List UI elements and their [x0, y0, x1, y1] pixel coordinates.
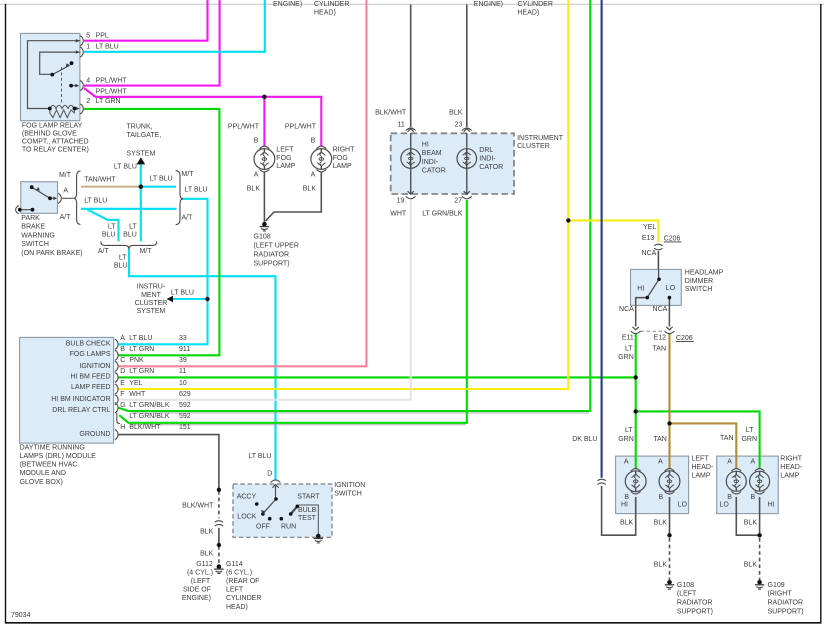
svg-text:79034: 79034	[11, 612, 31, 619]
svg-text:DRL RELAY CTRL: DRL RELAY CTRL	[52, 407, 110, 414]
svg-text:G114: G114	[226, 561, 243, 568]
svg-text:FOG: FOG	[333, 155, 348, 162]
svg-text:39: 39	[179, 357, 187, 364]
svg-text:LO: LO	[666, 285, 676, 292]
svg-text:LT BLU: LT BLU	[248, 453, 271, 460]
svg-text:TAN: TAN	[653, 345, 666, 352]
svg-text:SWITCH: SWITCH	[21, 241, 49, 248]
svg-text:E: E	[120, 380, 125, 387]
svg-text:(LEFT: (LEFT	[191, 578, 211, 585]
svg-text:INDI-: INDI-	[422, 159, 439, 166]
svg-text:629: 629	[179, 391, 191, 398]
svg-text:LAMP FEED: LAMP FEED	[71, 384, 111, 391]
svg-text:BLK: BLK	[620, 520, 634, 527]
svg-text:1: 1	[86, 43, 90, 50]
svg-text:LT GRN/BLK: LT GRN/BLK	[422, 210, 463, 217]
svg-text:11: 11	[179, 368, 186, 375]
svg-text:RADIATOR: RADIATOR	[254, 251, 290, 258]
svg-text:LT BLU: LT BLU	[150, 175, 173, 182]
svg-text:A/T: A/T	[182, 214, 194, 221]
svg-text:BLK: BLK	[744, 520, 758, 527]
svg-text:M/T: M/T	[182, 171, 195, 178]
svg-text:SUPPORT): SUPPORT)	[768, 609, 804, 616]
svg-text:PPL/WHT: PPL/WHT	[96, 89, 128, 96]
svg-text:(REAR OF: (REAR OF	[226, 578, 259, 585]
svg-text:PNK: PNK	[129, 357, 144, 364]
svg-text:IGNITION: IGNITION	[334, 482, 365, 489]
svg-text:LO: LO	[720, 501, 730, 508]
svg-text:23: 23	[455, 121, 463, 128]
svg-text:DK BLU: DK BLU	[572, 436, 597, 443]
svg-text:LT GRN/BLK: LT GRN/BLK	[129, 413, 170, 420]
svg-text:C: C	[120, 357, 125, 364]
svg-text:592: 592	[179, 402, 191, 409]
svg-text:BLK: BLK	[200, 550, 214, 557]
svg-text:33: 33	[179, 335, 187, 342]
svg-text:BLK/WHT: BLK/WHT	[182, 502, 214, 509]
svg-text:TAN: TAN	[653, 436, 666, 443]
svg-text:911: 911	[179, 346, 190, 353]
svg-text:11: 11	[398, 121, 405, 128]
svg-text:LT: LT	[746, 427, 754, 434]
svg-text:BRAKE: BRAKE	[21, 224, 45, 231]
svg-text:BULB: BULB	[298, 507, 317, 514]
svg-text:D: D	[267, 470, 272, 477]
svg-text:LT BLU: LT BLU	[129, 335, 152, 342]
svg-text:GRN: GRN	[618, 354, 634, 361]
svg-text:HEAD-: HEAD-	[780, 464, 802, 471]
svg-text:PPL/WHT: PPL/WHT	[285, 123, 317, 130]
svg-text:TO RELAY CENTER): TO RELAY CENTER)	[22, 147, 89, 154]
svg-text:HEAD): HEAD)	[518, 10, 540, 17]
svg-text:LEFT: LEFT	[226, 587, 244, 594]
svg-text:G: G	[120, 402, 125, 409]
svg-text:INSTRU-: INSTRU-	[137, 284, 166, 291]
svg-text:CLUSTER: CLUSTER	[135, 300, 168, 307]
svg-text:WARNING: WARNING	[21, 232, 55, 239]
svg-text:TAN/WHT: TAN/WHT	[84, 176, 116, 183]
svg-text:B: B	[254, 137, 259, 144]
svg-text:HI BM INDICATOR: HI BM INDICATOR	[51, 396, 110, 403]
svg-text:19: 19	[397, 197, 405, 204]
svg-text:CYLINDER: CYLINDER	[518, 1, 553, 8]
svg-text:HEADLAMP: HEADLAMP	[685, 270, 724, 277]
svg-text:BLK: BLK	[744, 561, 758, 568]
svg-text:HI: HI	[637, 285, 644, 292]
svg-text:A/T: A/T	[60, 214, 72, 221]
svg-text:GROUND: GROUND	[79, 431, 110, 438]
svg-text:RUN: RUN	[281, 523, 296, 530]
svg-text:RADIATOR: RADIATOR	[677, 600, 713, 607]
svg-text:2: 2	[86, 98, 90, 105]
svg-text:MENT: MENT	[141, 292, 162, 299]
svg-text:E12: E12	[654, 335, 667, 342]
svg-text:ENGINE): ENGINE)	[474, 1, 503, 8]
svg-text:(RIGHT: (RIGHT	[768, 591, 793, 598]
svg-text:E13: E13	[642, 235, 655, 242]
svg-text:CATOR: CATOR	[422, 167, 446, 174]
svg-text:LAMP: LAMP	[276, 163, 295, 170]
svg-text:M/T: M/T	[139, 248, 152, 255]
svg-text:A: A	[658, 459, 663, 466]
svg-text:5: 5	[86, 32, 90, 39]
svg-text:A: A	[120, 335, 125, 342]
svg-text:DRL: DRL	[479, 147, 493, 154]
svg-text:RIGHT: RIGHT	[333, 147, 356, 154]
svg-text:M/T: M/T	[59, 172, 72, 179]
svg-text:(LEFT: (LEFT	[677, 591, 697, 598]
svg-text:B: B	[659, 494, 664, 501]
svg-text:HI: HI	[768, 501, 775, 508]
svg-text:LT GRN/BLK: LT GRN/BLK	[129, 402, 170, 409]
svg-text:ENGINE): ENGINE)	[182, 595, 211, 602]
svg-text:10: 10	[179, 380, 187, 387]
svg-text:DAYTIME RUNNING: DAYTIME RUNNING	[20, 444, 85, 451]
svg-text:HI BM FEED: HI BM FEED	[70, 374, 110, 381]
svg-text:LT BLU: LT BLU	[171, 289, 194, 296]
svg-text:C206: C206	[676, 335, 693, 342]
svg-text:NCA: NCA	[619, 306, 634, 313]
svg-text:D: D	[120, 368, 125, 375]
svg-text:HEAD): HEAD)	[314, 10, 336, 17]
svg-text:PPL/WHT: PPL/WHT	[96, 77, 128, 84]
svg-text:592: 592	[179, 413, 191, 420]
svg-text:LEFT: LEFT	[276, 147, 294, 154]
svg-text:TRUNK,: TRUNK,	[127, 123, 153, 130]
svg-text:SWITCH: SWITCH	[685, 286, 713, 293]
svg-text:A: A	[254, 171, 259, 178]
svg-text:NCA: NCA	[653, 306, 668, 313]
svg-text:BLU: BLU	[123, 232, 137, 239]
svg-text:CATOR: CATOR	[479, 164, 503, 171]
svg-text:B: B	[311, 137, 316, 144]
svg-text:LAMPS (DRL) MODULE: LAMPS (DRL) MODULE	[20, 453, 97, 460]
svg-text:WHT: WHT	[390, 210, 407, 217]
svg-text:TAILGATE,: TAILGATE,	[127, 132, 162, 139]
svg-text:OFF: OFF	[256, 523, 270, 530]
svg-text:LT GRN: LT GRN	[129, 368, 154, 375]
svg-text:G108: G108	[254, 233, 271, 240]
svg-text:SUPPORT): SUPPORT)	[677, 609, 713, 616]
svg-text:LT GRN: LT GRN	[129, 346, 154, 353]
svg-text:PARK: PARK	[21, 215, 40, 222]
svg-text:LAMP: LAMP	[780, 473, 799, 480]
svg-text:LOCK: LOCK	[237, 514, 256, 521]
svg-text:CYLINDER: CYLINDER	[314, 1, 349, 8]
svg-text:TEST: TEST	[298, 515, 317, 522]
svg-text:CYLINDER: CYLINDER	[226, 595, 261, 602]
svg-text:LT: LT	[625, 345, 633, 352]
svg-text:HI: HI	[621, 501, 628, 508]
svg-text:B: B	[624, 494, 629, 501]
svg-text:SIDE OF: SIDE OF	[183, 587, 211, 594]
svg-text:GRN: GRN	[618, 436, 634, 443]
svg-text:LT BLU: LT BLU	[96, 43, 119, 50]
svg-text:FOG LAMPS: FOG LAMPS	[70, 351, 111, 358]
svg-text:DIMMER: DIMMER	[685, 278, 713, 285]
svg-text:G109: G109	[768, 582, 785, 589]
svg-text:SUPPORT): SUPPORT)	[254, 260, 290, 267]
svg-text:C206: C206	[664, 235, 681, 242]
svg-text:LT BLU: LT BLU	[114, 164, 137, 171]
svg-text:PPL/WHT: PPL/WHT	[228, 123, 260, 130]
svg-text:TAN: TAN	[720, 435, 733, 442]
svg-text:SYSTEM: SYSTEM	[137, 308, 166, 315]
svg-text:FOG LAMP RELAY: FOG LAMP RELAY	[22, 123, 83, 130]
svg-text:H: H	[120, 424, 125, 431]
svg-text:LAMP: LAMP	[692, 473, 711, 480]
svg-text:START: START	[297, 494, 320, 501]
svg-text:RIGHT: RIGHT	[780, 455, 803, 462]
svg-text:BLK: BLK	[654, 520, 668, 527]
svg-text:FOG: FOG	[276, 155, 291, 162]
svg-text:151: 151	[179, 424, 191, 431]
svg-text:B: B	[120, 346, 125, 353]
svg-text:GLOVE BOX): GLOVE BOX)	[20, 479, 63, 486]
svg-text:YEL: YEL	[129, 380, 142, 387]
svg-text:YEL: YEL	[643, 224, 656, 231]
svg-text:A: A	[63, 187, 68, 194]
svg-text:LT: LT	[108, 223, 116, 230]
svg-text:SWITCH: SWITCH	[334, 490, 362, 497]
svg-text:BULB CHECK: BULB CHECK	[66, 340, 111, 347]
svg-text:SYSTEM: SYSTEM	[127, 150, 156, 157]
svg-text:IGNITION: IGNITION	[79, 363, 110, 370]
svg-text:BLK: BLK	[654, 561, 668, 568]
svg-text:LAMP: LAMP	[333, 163, 352, 170]
svg-text:CLUSTER: CLUSTER	[517, 143, 550, 150]
svg-text:(4 CYL.): (4 CYL.)	[187, 569, 213, 576]
svg-text:B: B	[727, 494, 732, 501]
svg-text:LT BLU: LT BLU	[185, 186, 208, 193]
svg-text:MODULE AND: MODULE AND	[20, 470, 66, 477]
svg-text:(LEFT UPPER: (LEFT UPPER	[254, 242, 299, 249]
svg-text:BLU: BLU	[114, 263, 128, 270]
svg-text:A: A	[727, 459, 732, 466]
svg-text:(ON PARK BRAKE): (ON PARK BRAKE)	[21, 250, 82, 257]
svg-text:BLK: BLK	[449, 109, 463, 116]
svg-text:LO: LO	[678, 501, 688, 508]
svg-text:HI: HI	[422, 142, 429, 149]
svg-text:27: 27	[454, 197, 462, 204]
svg-text:A: A	[624, 459, 629, 466]
svg-text:G108: G108	[677, 582, 694, 589]
svg-text:BEAM: BEAM	[422, 150, 442, 157]
svg-text:LT: LT	[129, 223, 137, 230]
svg-text:INSTRUMENT: INSTRUMENT	[517, 135, 564, 142]
svg-text:WHT: WHT	[129, 391, 146, 398]
svg-text:LT: LT	[119, 254, 127, 261]
svg-text:ACCY: ACCY	[237, 494, 257, 501]
svg-text:PPL: PPL	[96, 32, 109, 39]
svg-text:ENGINE): ENGINE)	[273, 1, 302, 8]
svg-text:HEAD-: HEAD-	[692, 464, 714, 471]
svg-text:BLU: BLU	[102, 232, 116, 239]
svg-text:HEAD): HEAD)	[226, 604, 248, 611]
svg-text:LT: LT	[625, 427, 633, 434]
svg-text:LEFT: LEFT	[692, 455, 710, 462]
svg-text:LT BLU: LT BLU	[84, 198, 107, 205]
svg-text:BLK: BLK	[200, 528, 214, 535]
svg-text:A: A	[751, 459, 756, 466]
svg-text:(BETWEEN HVAC: (BETWEEN HVAC	[20, 462, 78, 469]
svg-text:BLK/WHT: BLK/WHT	[129, 424, 161, 431]
svg-text:B: B	[751, 494, 756, 501]
svg-text:4: 4	[86, 77, 90, 84]
svg-text:INDI-: INDI-	[479, 155, 496, 162]
svg-text:G112: G112	[196, 561, 213, 568]
svg-text:LT GRN: LT GRN	[96, 98, 121, 105]
svg-text:COMPT., ATTACHED: COMPT., ATTACHED	[22, 139, 89, 146]
svg-text:GRN: GRN	[741, 436, 757, 443]
svg-text:BLK: BLK	[303, 185, 317, 192]
svg-text:A: A	[311, 171, 316, 178]
svg-text:BLK: BLK	[247, 185, 261, 192]
svg-text:(6 CYL.): (6 CYL.)	[226, 569, 252, 576]
svg-text:E11: E11	[622, 335, 634, 342]
svg-text:(BEHIND GLOVE: (BEHIND GLOVE	[22, 131, 77, 138]
svg-text:NCA: NCA	[642, 250, 657, 257]
svg-text:BLK/WHT: BLK/WHT	[375, 109, 407, 116]
svg-text:F: F	[120, 391, 124, 398]
svg-text:A/T: A/T	[98, 248, 110, 255]
svg-text:RADIATOR: RADIATOR	[768, 600, 804, 607]
